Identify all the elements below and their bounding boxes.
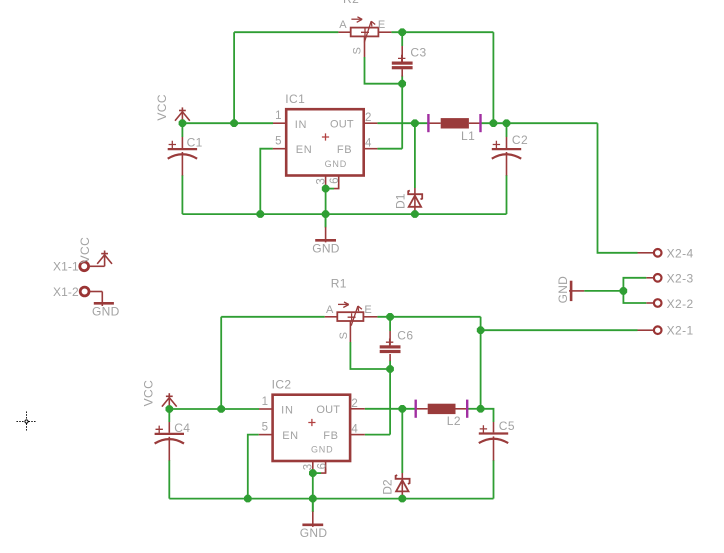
junction A-net (bottom) xyxy=(217,405,225,413)
svg-text:VCC: VCC xyxy=(78,237,92,264)
junction VCC2 xyxy=(166,405,174,413)
svg-text:OUT: OUT xyxy=(330,119,354,131)
svg-text:1: 1 xyxy=(275,110,281,122)
svg-text:IC2: IC2 xyxy=(272,378,292,392)
junction EN rail xyxy=(257,210,265,218)
connector X1-1 xyxy=(80,262,105,271)
wire top rail A-net horizontal xyxy=(234,31,338,33)
power VCC1 xyxy=(175,107,190,123)
wire OUT row pin2 to L2 xyxy=(365,408,415,410)
svg-text:L1: L1 xyxy=(461,129,475,143)
junction GND rail xyxy=(322,210,330,218)
junction L2 right xyxy=(477,405,485,413)
junction C2 top xyxy=(503,119,511,127)
svg-text:C3: C3 xyxy=(410,46,426,60)
svg-text:X1-2: X1-2 xyxy=(53,285,79,299)
wire D1 net vertical xyxy=(414,123,416,188)
junction D1 top xyxy=(411,119,419,127)
svg-text:R2: R2 xyxy=(343,0,359,6)
svg-text:C4: C4 xyxy=(174,421,190,435)
ground GND1 xyxy=(315,214,336,242)
junction A-net xyxy=(230,119,238,127)
resistor R2 trimmer xyxy=(338,17,391,57)
junction EN rail (bottom) xyxy=(244,495,252,503)
svg-text:6: 6 xyxy=(316,463,328,469)
wire E-net to corner (bottom) xyxy=(377,316,480,318)
svg-text:FB: FB xyxy=(323,430,338,442)
junction S/C3 xyxy=(398,80,406,88)
wire GND2 pins to rail xyxy=(312,473,314,512)
junction D2 top xyxy=(399,405,407,413)
wire X2-3 to junction xyxy=(623,278,646,291)
resistor R1 trimmer xyxy=(325,302,378,342)
svg-text:A: A xyxy=(326,304,334,316)
wire GND1 pins to rail xyxy=(325,189,327,228)
svg-text:E: E xyxy=(378,19,385,31)
svg-text:5: 5 xyxy=(275,136,281,148)
wire bottom rail (bottom circuit) xyxy=(169,498,493,500)
wire C5 bottom green xyxy=(493,460,495,499)
diode D2 zener xyxy=(396,473,410,499)
svg-text:4: 4 xyxy=(351,423,358,435)
svg-text:C1: C1 xyxy=(187,135,203,149)
capacitor C5 xyxy=(479,422,508,461)
IC2 origin cross xyxy=(308,419,315,426)
wire C1 bottom green xyxy=(181,175,183,214)
IC1 pin 3 stub xyxy=(325,176,327,189)
IC2 pin 1 stub xyxy=(259,408,273,410)
IC2 pin 2 stub xyxy=(350,408,365,410)
junction pins 3-6 (IC2) xyxy=(309,469,317,477)
wire A-net vertical (bottom circuit) xyxy=(220,317,222,409)
svg-text:C6: C6 xyxy=(397,329,413,343)
svg-text:L2: L2 xyxy=(447,414,461,428)
IC1 pin 4 stub xyxy=(364,148,378,150)
wire C4 bottom green xyxy=(168,460,170,499)
svg-text:GND: GND xyxy=(556,276,570,304)
wire S-net (bottom) xyxy=(350,342,390,369)
wire C2 top green xyxy=(506,123,508,137)
junction L1 right xyxy=(490,119,498,127)
svg-text:GND: GND xyxy=(300,526,328,540)
wire X2-1 net horizontal xyxy=(481,329,638,331)
junction pins 3-6 xyxy=(322,185,330,193)
svg-text:A: A xyxy=(339,19,347,31)
svg-text:3: 3 xyxy=(315,178,327,184)
svg-text:GND: GND xyxy=(311,445,333,455)
svg-text:VCC: VCC xyxy=(142,380,156,407)
wire pin6 to pin3 junction (IC2) xyxy=(313,472,321,474)
svg-text:1: 1 xyxy=(262,396,268,408)
capacitor C2 xyxy=(492,137,521,176)
svg-text:IN: IN xyxy=(281,405,294,417)
wire E-net vertical down to L1 row xyxy=(492,32,494,123)
pin6 corner red (IC2) xyxy=(321,469,326,474)
IC1 box xyxy=(286,109,364,175)
svg-text:2: 2 xyxy=(351,398,357,410)
junction S/C6 xyxy=(386,365,394,373)
svg-text:FB: FB xyxy=(337,144,352,156)
svg-text:VCC: VCC xyxy=(155,94,169,121)
svg-text:X1-1: X1-1 xyxy=(53,260,79,274)
svg-text:GND: GND xyxy=(325,159,347,169)
svg-text:E: E xyxy=(364,304,371,316)
svg-text:C5: C5 xyxy=(499,419,515,433)
svg-text:R1: R1 xyxy=(331,277,347,291)
connector X2-1 xyxy=(638,326,662,334)
wire FB net vertical (bottom) xyxy=(389,369,391,435)
capacitor C4 xyxy=(155,422,184,461)
connector X2-4 xyxy=(638,249,662,257)
wire VCC row to IC1 pin1 xyxy=(182,122,273,124)
svg-text:GND: GND xyxy=(312,242,340,256)
wire FB net horizontal to pin4 (bottom) xyxy=(365,434,390,436)
svg-text:S: S xyxy=(338,332,350,339)
capacitor C3 xyxy=(392,46,413,77)
wire FB net horizontal to pin4 xyxy=(377,148,402,150)
wire top rail A-net horizontal (bottom circuit) xyxy=(221,316,325,318)
wire D2 net vertical xyxy=(401,409,403,473)
wire OUT row L1 right to corner at 597 xyxy=(481,122,598,124)
wire S-net vertical and horizontal xyxy=(365,57,403,84)
wire C5 top corner xyxy=(481,409,494,422)
inductor L1 xyxy=(427,114,481,132)
IC2 pin 3 stub xyxy=(312,461,314,473)
wire C6 top lead green xyxy=(389,317,391,331)
IC2 pin 5 stub xyxy=(259,434,273,436)
svg-text:IC1: IC1 xyxy=(285,92,305,106)
junction D1 rail xyxy=(411,210,419,218)
IC1 pin 6 stub xyxy=(338,176,340,189)
pin6 corner red xyxy=(334,184,339,189)
svg-text:D2: D2 xyxy=(381,479,395,495)
svg-text:C2: C2 xyxy=(512,133,528,147)
connector X2-3 xyxy=(646,274,661,282)
svg-text:5: 5 xyxy=(262,421,268,433)
capacitor C6 xyxy=(380,331,401,361)
svg-text:GND: GND xyxy=(92,305,120,319)
wire X2-2 to junction xyxy=(623,291,646,303)
svg-text:6: 6 xyxy=(329,177,341,183)
svg-text:3: 3 xyxy=(303,464,315,470)
wire FB net vertical from S junction xyxy=(401,84,403,149)
wire OUT row pin2 to L1 xyxy=(377,122,428,124)
junction GND rail (bottom) xyxy=(309,495,317,503)
svg-text:X2-1: X2-1 xyxy=(667,323,694,337)
IC1 pin 1 stub xyxy=(273,122,286,124)
wire X2-4 net vertical and horizontal xyxy=(598,123,638,253)
svg-text:S: S xyxy=(352,47,364,54)
inductor L2 xyxy=(415,400,469,418)
svg-text:X2-2: X2-2 xyxy=(667,297,694,311)
wire bottom rail xyxy=(182,213,506,215)
wire C3 bottom green to S junction xyxy=(401,76,403,84)
junction E-net xyxy=(398,28,406,36)
ground GND4 at X1-2 xyxy=(94,292,114,307)
wire C4 top green xyxy=(168,409,170,422)
IC2 pin 6 stub xyxy=(325,461,327,473)
wire VCC2 row to IC2 pin1 xyxy=(169,408,259,410)
svg-text:EN: EN xyxy=(296,144,312,156)
wire E-net to corner xyxy=(391,31,493,33)
svg-text:D1: D1 xyxy=(393,193,407,209)
junction X2-1 branch xyxy=(477,326,485,334)
svg-text:2: 2 xyxy=(365,112,371,124)
power VCC3 at X1-1 xyxy=(97,250,112,266)
wire EN net (bottom) xyxy=(248,435,259,499)
connector X1-2 xyxy=(80,287,102,296)
ground GND2 xyxy=(302,499,323,527)
IC2 box xyxy=(273,395,351,461)
svg-text:X2-3: X2-3 xyxy=(667,272,694,286)
svg-text:X2-4: X2-4 xyxy=(667,247,694,261)
wire C1 top green xyxy=(181,123,183,137)
junction X2 GND xyxy=(620,287,628,295)
ground GND3 (rotated) xyxy=(569,281,584,301)
IC2 pin 4 stub xyxy=(350,434,365,436)
svg-text:OUT: OUT xyxy=(316,404,340,416)
origin cross marker xyxy=(17,412,37,432)
capacitor C1 xyxy=(168,137,197,176)
IC1 pin 5 stub xyxy=(273,148,286,150)
wire C6 bottom green to S junction xyxy=(389,361,391,370)
IC1 origin cross xyxy=(322,133,329,140)
power VCC2 xyxy=(162,393,177,409)
junction E-net (bottom) xyxy=(386,313,394,321)
wire top rail A-net vertical xyxy=(233,32,235,123)
wire C3 top lead green xyxy=(401,32,403,46)
wire pin6 to pin3 junction xyxy=(326,188,334,190)
svg-text:EN: EN xyxy=(282,430,298,442)
junction D2 rail xyxy=(399,495,407,503)
IC1 pin 2 stub xyxy=(364,122,378,124)
wire OUT row L2 right xyxy=(468,408,480,410)
wire C2 bottom green xyxy=(506,175,508,214)
svg-text:4: 4 xyxy=(365,138,372,150)
svg-text:IN: IN xyxy=(295,119,308,131)
junction VCC1 xyxy=(179,119,187,127)
wire E-net vertical down to L2 row xyxy=(480,317,482,408)
diode D1 zener xyxy=(408,188,422,214)
wire EN net xyxy=(260,149,273,214)
wire GND3 to junction xyxy=(584,290,623,292)
connector X2-2 xyxy=(646,299,661,307)
